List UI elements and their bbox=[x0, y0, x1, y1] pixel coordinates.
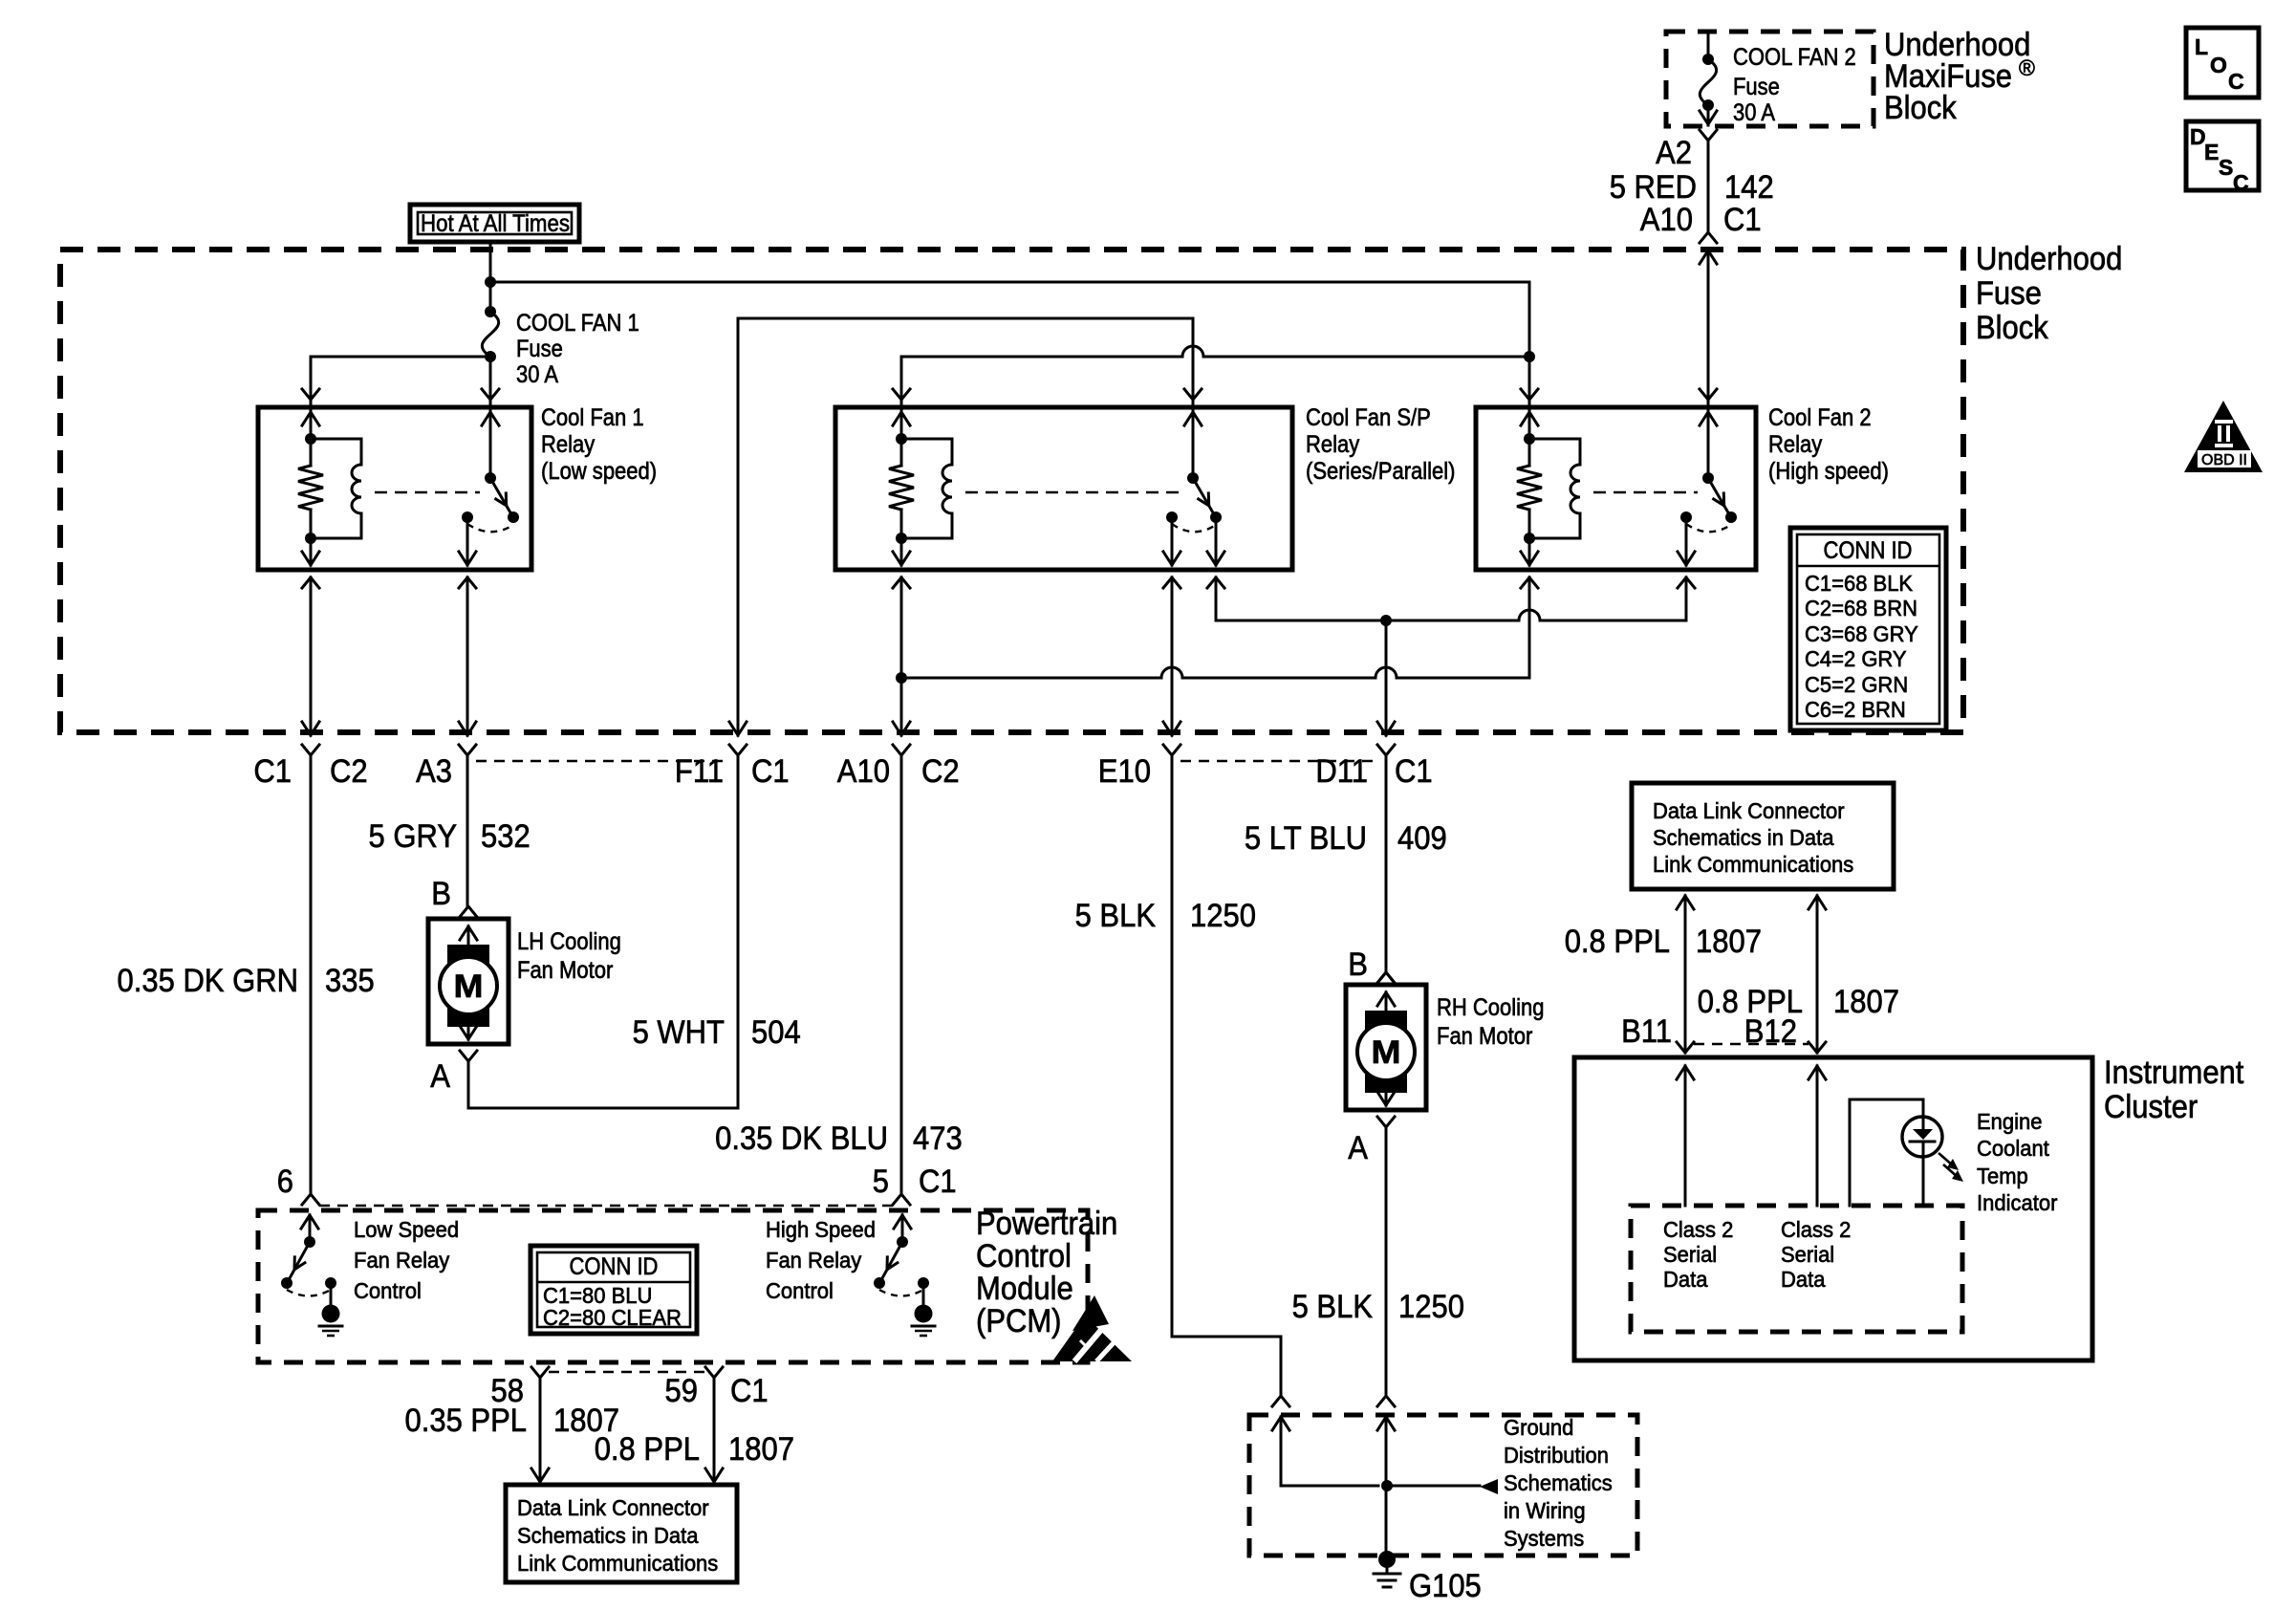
wire into ground box right bbox=[1377, 1417, 1395, 1430]
svg-text:L: L bbox=[2195, 34, 2208, 59]
relay K2 Cool Fan S/P coil-switch dashed link bbox=[965, 491, 1182, 494]
relay K1 Cool Fan 1 stationary contact bbox=[462, 511, 473, 523]
svg-text:Class 2: Class 2 bbox=[1663, 1217, 1733, 1242]
Data Link Connector reference box (bottom) bbox=[506, 1485, 737, 1582]
motor M2 RH pin B chevron bbox=[1377, 972, 1395, 983]
relay K3 Cool Fan 2 stationary contact bbox=[1680, 511, 1692, 523]
svg-text:1807: 1807 bbox=[1696, 924, 1762, 960]
OBD II symbol bbox=[2184, 401, 2263, 472]
svg-text:5 GRY: 5 GRY bbox=[369, 818, 458, 855]
svg-text:532: 532 bbox=[481, 818, 531, 855]
wire K1 contact to A3 connector bbox=[466, 577, 469, 735]
svg-text:C1: C1 bbox=[919, 1164, 957, 1200]
Class 2 serial data dashed box bbox=[1631, 1206, 1962, 1332]
svg-text:Fan Motor: Fan Motor bbox=[517, 957, 613, 984]
svg-text:Link Communications: Link Communications bbox=[517, 1551, 718, 1576]
svg-text:5: 5 bbox=[873, 1164, 889, 1200]
svg-text:A2: A2 bbox=[1656, 135, 1692, 171]
LED engine coolant temp indicator bbox=[1902, 1117, 1942, 1157]
svg-text:A10: A10 bbox=[837, 753, 890, 790]
svg-text:409: 409 bbox=[1397, 820, 1447, 857]
wire B11 inside cluster bbox=[1677, 1066, 1694, 1079]
Low Speed Fan Relay Control switch bbox=[281, 1215, 342, 1336]
wire relay K2 coil to K3 coil junction bbox=[901, 357, 1182, 407]
svg-text:(Low speed): (Low speed) bbox=[541, 458, 657, 485]
svg-text:142: 142 bbox=[1724, 169, 1774, 206]
wire 5 BLK 1250 E10 to ground box bbox=[1172, 755, 1281, 1396]
relay K1 Cool Fan 1 switch bbox=[482, 389, 499, 400]
svg-text:Relay: Relay bbox=[1306, 431, 1360, 458]
relay K3 Cool Fan 2 coil bbox=[1529, 439, 1580, 465]
svg-text:RH Cooling: RH Cooling bbox=[1437, 994, 1545, 1021]
fuse COOL FAN 2 30A bbox=[1700, 59, 1716, 105]
svg-text:5 BLK: 5 BLK bbox=[1292, 1289, 1374, 1325]
label Ground Distribution Schematics in Wiring Systems bbox=[1504, 1415, 1613, 1551]
relay K3 Cool Fan 2 switch bbox=[1700, 389, 1717, 400]
svg-text:C1: C1 bbox=[730, 1373, 769, 1409]
svg-text:E: E bbox=[2204, 140, 2219, 164]
wire A10 C1 to relay K3 common bbox=[1707, 250, 1710, 407]
wire 5 LT BLU 409 D11 to RH motor B bbox=[1385, 755, 1388, 972]
svg-text:Temp: Temp bbox=[1977, 1164, 2028, 1188]
wire K3 coil- down to bus bbox=[1528, 577, 1531, 678]
svg-text:Ground: Ground bbox=[1504, 1415, 1573, 1440]
svg-text:Low Speed: Low Speed bbox=[354, 1217, 459, 1242]
svg-text:F11: F11 bbox=[675, 753, 724, 790]
relay K1 Cool Fan 1 coil-switch dashed link bbox=[375, 491, 480, 494]
wire B12 inside cluster bbox=[1809, 1066, 1826, 1079]
label COOL FAN 2 Fuse 30 A bbox=[1733, 44, 1856, 126]
relay K1 Cool Fan 1 label bbox=[541, 404, 657, 485]
svg-text:Control: Control bbox=[976, 1238, 1072, 1274]
svg-text:C4=2 GRY: C4=2 GRY bbox=[1805, 646, 1907, 671]
svg-text:S: S bbox=[2219, 155, 2233, 180]
motor M1 LH label bbox=[517, 928, 621, 984]
svg-text:Schematics in Data: Schematics in Data bbox=[1653, 825, 1834, 850]
svg-text:High Speed: High Speed bbox=[766, 1217, 876, 1242]
svg-text:(High speed): (High speed) bbox=[1768, 458, 1889, 485]
svg-text:Data: Data bbox=[1663, 1267, 1708, 1292]
motor M2 RH box bbox=[1346, 985, 1426, 1110]
svg-text:D11: D11 bbox=[1315, 753, 1368, 790]
wire K2 coil- to A10 connector bbox=[900, 577, 903, 735]
hop over D11 wire bbox=[1375, 667, 1397, 678]
LOC icon box bbox=[2186, 28, 2259, 98]
svg-text:Data Link Connector: Data Link Connector bbox=[1653, 798, 1845, 823]
wire to schematic pointer bbox=[1387, 1485, 1480, 1488]
fork B11 bbox=[1677, 1042, 1694, 1053]
reference pointer triangle bbox=[1480, 1479, 1498, 1494]
svg-text:C6=2 BRN: C6=2 BRN bbox=[1805, 697, 1906, 722]
wire K2 moving to K3 stationary (series link) bbox=[1216, 577, 1519, 620]
wire F11 branch to relay K2 common bbox=[738, 318, 1193, 735]
svg-text:30 A: 30 A bbox=[516, 361, 558, 388]
junction dot hot feed bbox=[485, 276, 496, 288]
motor M2 RH label bbox=[1437, 994, 1545, 1050]
connector dashed link 58-59 bbox=[549, 1371, 705, 1374]
svg-text:Schematics in Data: Schematics in Data bbox=[517, 1523, 699, 1548]
svg-text:5 WHT: 5 WHT bbox=[633, 1014, 725, 1051]
svg-text:Control: Control bbox=[766, 1278, 834, 1303]
relay K1 Cool Fan 1 coil plus pin bbox=[302, 389, 319, 400]
svg-text:E10: E10 bbox=[1098, 753, 1151, 790]
label Class 2 Serial Data (right) bbox=[1781, 1217, 1851, 1292]
svg-text:B11: B11 bbox=[1621, 1013, 1672, 1050]
junction K3 coil feed bbox=[1524, 351, 1535, 362]
svg-text:C2: C2 bbox=[330, 753, 368, 790]
svg-text:6: 6 bbox=[277, 1164, 293, 1200]
svg-text:Link Communications: Link Communications bbox=[1653, 852, 1853, 877]
Underhood Fuse Block dashed box bbox=[60, 250, 1963, 732]
svg-text:59: 59 bbox=[665, 1373, 699, 1409]
svg-text:Underhood: Underhood bbox=[1976, 241, 2122, 277]
wire 0.35 DK BLU 473 to PCM pin 5 bbox=[900, 755, 903, 1194]
motor M2 RH internals bbox=[1357, 992, 1415, 1105]
svg-text:A: A bbox=[430, 1058, 450, 1095]
fork B12 bbox=[1809, 1042, 1826, 1053]
connector forks below fuse block bbox=[302, 745, 319, 755]
engine coolant temp indicator circuit bbox=[1850, 1099, 1923, 1206]
motor M2 RH pin A fork bbox=[1377, 1117, 1395, 1127]
DESC icon box bbox=[2186, 121, 2259, 195]
High Speed Fan Relay Control switch bbox=[874, 1215, 935, 1336]
relay K3 Cool Fan 2 throw dashed arc bbox=[1686, 524, 1731, 532]
hop over E10 wire bbox=[1161, 667, 1182, 678]
Ground distribution dashed box bbox=[1249, 1415, 1637, 1556]
relay K2 Cool Fan S/P coil plus pin bbox=[893, 389, 910, 400]
motor M1 LH pin A fork bbox=[460, 1051, 477, 1061]
hop over K3 coil wire bbox=[1519, 610, 1540, 620]
svg-text:Data: Data bbox=[1781, 1267, 1826, 1292]
relay K3 Cool Fan 2 coil-switch dashed link bbox=[1593, 491, 1698, 494]
svg-text:Block: Block bbox=[1976, 310, 2049, 346]
arrow into Underhood Fuse Block bbox=[1700, 250, 1717, 264]
svg-text:(Series/Parallel): (Series/Parallel) bbox=[1306, 458, 1456, 485]
relay K2 Cool Fan S/P throw dashed arc bbox=[1172, 524, 1216, 532]
wire fuse to relay K1 common bbox=[489, 357, 492, 407]
relay K1 Cool Fan 1 box bbox=[258, 407, 531, 570]
label COOL FAN 1 Fuse 30 A bbox=[516, 310, 639, 388]
svg-text:1250: 1250 bbox=[1190, 898, 1256, 934]
svg-text:C5=2 GRN: C5=2 GRN bbox=[1805, 672, 1908, 697]
svg-text:5 LT BLU: 5 LT BLU bbox=[1245, 820, 1367, 857]
svg-text:CONN ID: CONN ID bbox=[1824, 537, 1913, 564]
svg-text:Cool Fan 1: Cool Fan 1 bbox=[541, 404, 644, 431]
wire B12 to data link bbox=[1816, 896, 1819, 1053]
svg-text:1250: 1250 bbox=[1398, 1289, 1464, 1325]
svg-text:Coolant: Coolant bbox=[1977, 1136, 2049, 1161]
relay K1 Cool Fan 1 throw dashed arc bbox=[467, 524, 513, 532]
svg-text:335: 335 bbox=[325, 963, 375, 999]
label Underhood MaxiFuse Block bbox=[1884, 27, 2035, 126]
wire LED to class2 box bbox=[1922, 1157, 1925, 1206]
svg-text:LH Cooling: LH Cooling bbox=[517, 928, 621, 955]
label Powertrain Control Module (PCM) bbox=[976, 1206, 1117, 1339]
wire 5 GRY 532 to LH motor B bbox=[466, 755, 469, 906]
label Underhood Fuse Block bbox=[1976, 241, 2122, 346]
Data Link Connector reference box (upper) bbox=[1632, 783, 1894, 889]
CONN ID table fuse block bbox=[1790, 528, 1946, 730]
svg-text:C2: C2 bbox=[921, 753, 960, 790]
svg-text:B12: B12 bbox=[1744, 1013, 1797, 1050]
label Engine Coolant Temp Indicator bbox=[1977, 1109, 2058, 1215]
wire A2 to A10 bbox=[1707, 141, 1710, 232]
svg-text:in Wiring: in Wiring bbox=[1504, 1498, 1586, 1523]
svg-text:A: A bbox=[1348, 1130, 1368, 1166]
svg-text:Relay: Relay bbox=[541, 431, 596, 458]
ESD symbol bbox=[1052, 1295, 1132, 1361]
svg-text:Cool Fan S/P: Cool Fan S/P bbox=[1306, 404, 1431, 431]
svg-text:5 RED: 5 RED bbox=[1610, 169, 1697, 206]
svg-text:0.35 DK GRN: 0.35 DK GRN bbox=[118, 963, 299, 999]
CONN ID table PCM bbox=[531, 1246, 697, 1334]
svg-text:Control: Control bbox=[354, 1278, 422, 1303]
PCM pins 58/59 forks bbox=[531, 1367, 549, 1378]
svg-text:Systems: Systems bbox=[1504, 1526, 1584, 1551]
Hot At All Times box bbox=[410, 205, 579, 242]
svg-text:M: M bbox=[454, 968, 484, 1005]
label Class 2 Serial Data (left) bbox=[1663, 1217, 1733, 1292]
wire to K3 coil bbox=[1528, 357, 1531, 407]
svg-text:5 BLK: 5 BLK bbox=[1075, 898, 1157, 934]
wire 0.35 DK GRN 335 to PCM pin 6 bbox=[310, 755, 313, 1194]
ground G105 bbox=[1374, 1551, 1400, 1587]
svg-text:A10: A10 bbox=[1640, 202, 1693, 238]
svg-text:Relay: Relay bbox=[1768, 431, 1823, 458]
svg-text:B: B bbox=[431, 876, 451, 912]
svg-text:Serial: Serial bbox=[1781, 1242, 1834, 1267]
svg-text:Fuse: Fuse bbox=[1976, 275, 2042, 312]
svg-text:1807: 1807 bbox=[1833, 984, 1899, 1020]
svg-text:Class 2: Class 2 bbox=[1781, 1217, 1851, 1242]
svg-text:C: C bbox=[2233, 170, 2249, 195]
wire stub into MaxiFuse bbox=[1707, 34, 1710, 59]
svg-text:Fan Relay: Fan Relay bbox=[354, 1248, 450, 1273]
svg-text:504: 504 bbox=[751, 1014, 801, 1051]
svg-text:C1: C1 bbox=[253, 753, 292, 790]
svg-text:G105: G105 bbox=[1409, 1568, 1482, 1604]
label High Speed Fan Relay Control bbox=[766, 1217, 876, 1303]
wire 0.35 PPL 1807 bbox=[539, 1378, 542, 1482]
wire K2 contact to E10 connector bbox=[1171, 577, 1174, 735]
svg-text:B: B bbox=[1348, 946, 1368, 983]
svg-text:(PCM): (PCM) bbox=[976, 1303, 1062, 1339]
svg-text:Serial: Serial bbox=[1663, 1242, 1717, 1267]
Underhood MaxiFuse Block dashed box bbox=[1666, 32, 1874, 126]
svg-text:0.8 PPL: 0.8 PPL bbox=[595, 1431, 700, 1468]
relay K3 Cool Fan 2 coil plus pin bbox=[1521, 389, 1538, 400]
LED light arrows bbox=[1939, 1153, 1963, 1182]
svg-text:COOL FAN 2: COOL FAN 2 bbox=[1733, 44, 1856, 71]
svg-text:Indicator: Indicator bbox=[1977, 1190, 2058, 1215]
motor M1 LH pin B chevron bbox=[460, 906, 477, 917]
svg-text:Fuse: Fuse bbox=[1733, 74, 1780, 100]
junction ground bus bbox=[1381, 1480, 1393, 1491]
svg-text:0.35 PPL: 0.35 PPL bbox=[405, 1403, 528, 1439]
hop over K2 common wire bbox=[1182, 346, 1203, 357]
svg-text:Block: Block bbox=[1884, 90, 1958, 126]
relay K3 Cool Fan 2 label bbox=[1768, 404, 1889, 485]
wire B11 to data link bbox=[1684, 896, 1687, 1053]
svg-text:®: ® bbox=[2019, 55, 2035, 80]
relay K2 Cool Fan S/P moving contact pin bbox=[1215, 517, 1218, 565]
relay K2 Cool Fan S/P resistor bbox=[889, 466, 914, 510]
svg-text:1807: 1807 bbox=[728, 1431, 794, 1468]
connector dashed link A3-F11 bbox=[476, 760, 728, 763]
svg-text:Powertrain: Powertrain bbox=[976, 1206, 1117, 1242]
wire F11 5 WHT 504 to LH motor A bbox=[468, 755, 738, 1108]
relay K3 Cool Fan 2 resistor bbox=[1517, 466, 1542, 510]
wire from Hot At All Times bbox=[489, 242, 492, 312]
svg-text:Schematics: Schematics bbox=[1504, 1470, 1613, 1495]
svg-text:A3: A3 bbox=[416, 753, 452, 790]
svg-text:C1: C1 bbox=[751, 753, 790, 790]
relay K2 Cool Fan S/P stationary contact bbox=[1166, 511, 1178, 523]
wire RH motor A to ground box bbox=[1385, 1127, 1388, 1396]
connector dashed link B11-B12 bbox=[1694, 1043, 1809, 1046]
PCM connector dashed link 6-5 bbox=[319, 1205, 893, 1207]
wire D11 down bbox=[1385, 620, 1388, 735]
label Instrument Cluster bbox=[2104, 1055, 2244, 1125]
svg-text:COOL FAN 1: COOL FAN 1 bbox=[516, 310, 639, 337]
motor M1 LH box bbox=[428, 919, 509, 1044]
relay K2 Cool Fan S/P switch bbox=[1184, 389, 1202, 400]
svg-text:Distribution: Distribution bbox=[1504, 1443, 1609, 1468]
svg-text:473: 473 bbox=[913, 1120, 963, 1157]
wire F11 arrow bbox=[729, 722, 747, 735]
relay K2 Cool Fan S/P label bbox=[1306, 404, 1456, 485]
svg-text:0.35 DK BLU: 0.35 DK BLU bbox=[715, 1120, 888, 1157]
wire 0.8 PPL 1807 bbox=[713, 1378, 716, 1482]
motor M1 LH internals bbox=[440, 926, 497, 1039]
svg-text:C1: C1 bbox=[1723, 202, 1762, 238]
svg-text:C2=68 BRN: C2=68 BRN bbox=[1805, 596, 1917, 620]
junction D11 wire bbox=[1380, 615, 1392, 626]
relay K3 Cool Fan 2 box bbox=[1476, 407, 1756, 570]
relay K2 Cool Fan S/P box bbox=[835, 407, 1292, 570]
relay K2 Cool Fan S/P coil bbox=[901, 439, 952, 465]
PCM dashed box bbox=[258, 1210, 1088, 1362]
svg-text:Instrument: Instrument bbox=[2104, 1055, 2244, 1091]
svg-text:C1=68 BLK: C1=68 BLK bbox=[1805, 571, 1914, 596]
svg-text:Engine: Engine bbox=[1977, 1109, 2043, 1134]
svg-text:0.8 PPL: 0.8 PPL bbox=[1565, 924, 1670, 960]
wire feed line to relay K3 coil bbox=[490, 282, 1529, 357]
wire into ground box left bbox=[1272, 1417, 1289, 1430]
svg-text:30 A: 30 A bbox=[1733, 99, 1775, 126]
connector A2 fork below MaxiFuse bbox=[1700, 130, 1717, 141]
svg-text:C2=80 CLEAR: C2=80 CLEAR bbox=[543, 1305, 682, 1330]
svg-text:Fuse: Fuse bbox=[516, 336, 563, 362]
fuse COOL FAN 1 30A bbox=[482, 312, 498, 357]
wire K1 coil- to C1/C2 connector bbox=[310, 577, 313, 735]
bus K2 coil- to K3 coil- bbox=[901, 677, 1161, 680]
svg-text:Hot At All Times: Hot At All Times bbox=[421, 210, 570, 237]
svg-text:O: O bbox=[2210, 53, 2227, 77]
svg-text:C1: C1 bbox=[1395, 753, 1433, 790]
wire fuse to relay K1 coil bbox=[311, 357, 490, 407]
svg-text:Cluster: Cluster bbox=[2104, 1089, 2198, 1125]
svg-text:CONN ID: CONN ID bbox=[570, 1253, 659, 1280]
svg-text:Cool Fan 2: Cool Fan 2 bbox=[1768, 404, 1872, 431]
connector dashed link E10-D11 bbox=[1180, 760, 1377, 763]
relay K1 Cool Fan 1 coil bbox=[311, 439, 361, 465]
svg-text:Data Link Connector: Data Link Connector bbox=[517, 1495, 709, 1520]
svg-text:C: C bbox=[2228, 69, 2244, 94]
svg-text:OBD II: OBD II bbox=[2201, 452, 2247, 468]
svg-text:Fan Motor: Fan Motor bbox=[1437, 1023, 1532, 1050]
svg-text:Module: Module bbox=[976, 1271, 1073, 1307]
svg-text:M: M bbox=[1372, 1034, 1401, 1071]
label Low Speed Fan Relay Control bbox=[354, 1217, 459, 1303]
relay K1 Cool Fan 1 resistor bbox=[298, 466, 323, 510]
svg-text:Fan Relay: Fan Relay bbox=[766, 1248, 862, 1273]
Instrument Cluster box bbox=[1574, 1057, 2092, 1360]
svg-text:C3=68 GRY: C3=68 GRY bbox=[1805, 621, 1918, 646]
